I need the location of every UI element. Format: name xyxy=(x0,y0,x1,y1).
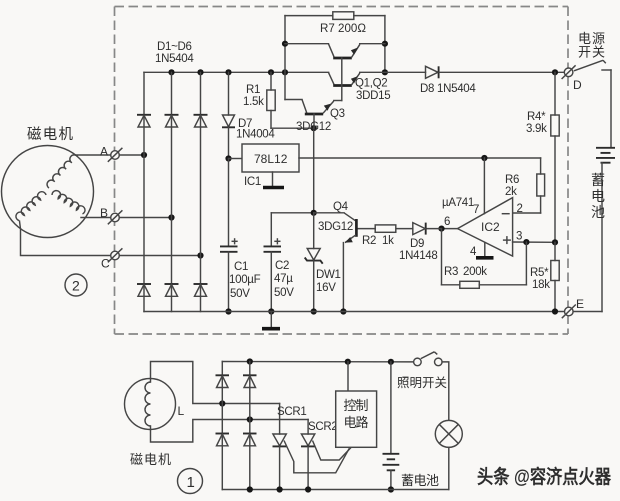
resistor R2 1k xyxy=(357,225,396,232)
junction phase A xyxy=(141,152,147,158)
thyristor SCR1 xyxy=(273,404,350,490)
resistor R1 1.5k xyxy=(267,72,314,128)
junction Q4 collector node xyxy=(311,210,317,216)
svg-text:R7 200Ω: R7 200Ω xyxy=(320,21,366,35)
svg-text:1: 1 xyxy=(187,474,195,491)
junction C1 to ground rail xyxy=(225,308,231,314)
svg-text:电: 电 xyxy=(591,188,605,204)
lamp xyxy=(435,420,462,447)
svg-text:6: 6 xyxy=(444,216,450,228)
label DW1 16V xyxy=(316,269,341,294)
svg-text:R3: R3 xyxy=(444,266,458,278)
label 磁电机 (bottom motor) xyxy=(130,452,171,467)
label 电源开关 power switch xyxy=(578,31,605,60)
svg-text:3.9k: 3.9k xyxy=(526,123,547,135)
label Q1,Q2 3DD15 xyxy=(355,78,390,103)
diode bridge bottom-left xyxy=(216,434,230,446)
rectifier column 3 wire xyxy=(200,72,202,311)
magneto generator M2 body xyxy=(2,146,94,238)
node E connector xyxy=(562,305,576,319)
rectifier column 2 wire xyxy=(171,72,173,311)
pin 3 wire and label xyxy=(513,231,555,243)
svg-text:1k: 1k xyxy=(382,235,394,247)
diode D1 xyxy=(137,115,151,127)
transistor Q2 xyxy=(328,72,385,85)
svg-text:电路: 电路 xyxy=(344,415,369,430)
ground symbol on bottom rail xyxy=(262,312,280,329)
svg-text:3: 3 xyxy=(516,231,522,243)
diode bridge top-left xyxy=(216,375,230,387)
label R6 2k xyxy=(505,174,519,198)
svg-text:50V: 50V xyxy=(230,288,250,300)
transistor Q3 xyxy=(285,86,342,129)
12V supply line from IC1 xyxy=(299,158,541,174)
label Q3 3DG12 xyxy=(296,108,345,133)
diode D2 xyxy=(165,115,179,127)
svg-text:开关: 开关 xyxy=(578,45,605,60)
label SCR1 xyxy=(277,406,306,418)
wire Q3 base node down to Q4 node xyxy=(313,128,315,213)
svg-text:控制: 控制 xyxy=(344,398,369,413)
wire rail to D7 xyxy=(228,72,230,115)
bridge column 2 wire xyxy=(249,362,251,490)
label Q4 3DG12 xyxy=(318,201,353,233)
resistor R3 200k network xyxy=(442,229,527,289)
junction pin 6 node xyxy=(438,226,444,232)
wire M1 lead 1 xyxy=(151,362,223,404)
circled label 1 xyxy=(178,469,203,494)
node B connector xyxy=(108,210,123,224)
svg-text:B: B xyxy=(100,206,108,220)
svg-text:照明开关: 照明开关 xyxy=(397,376,447,390)
wire C2 top to Q4 node xyxy=(271,212,313,214)
node D connector xyxy=(562,65,576,79)
rail junction dots xyxy=(168,69,288,75)
wire phase C from motor xyxy=(20,221,111,256)
pin 2 label xyxy=(517,203,523,215)
svg-text:蓄: 蓄 xyxy=(591,172,605,188)
svg-text:18k: 18k xyxy=(532,279,550,291)
svg-text:DW1: DW1 xyxy=(316,269,341,281)
watermark 头条 @容济点火器 xyxy=(477,465,612,488)
resistor R5* 18k xyxy=(551,242,559,311)
wire D7 to regulator node xyxy=(228,128,230,159)
wire phase A from motor xyxy=(76,154,111,156)
junction pin3 / R3 xyxy=(523,239,529,245)
svg-text:R4*: R4* xyxy=(527,111,546,123)
svg-text:50V: 50V xyxy=(274,287,294,299)
svg-text:L: L xyxy=(178,404,185,418)
node A connector xyxy=(108,148,123,162)
svg-text:1N5404: 1N5404 xyxy=(155,53,194,65)
wire switch to lamp xyxy=(442,362,449,421)
bridge column 1 wire xyxy=(221,362,223,490)
svg-text:R5*: R5* xyxy=(530,267,549,279)
svg-text:D9: D9 xyxy=(410,238,424,250)
svg-text:R6: R6 xyxy=(505,174,519,186)
label D7 1N4004 xyxy=(236,118,275,141)
section 2 boundary dashed box xyxy=(115,7,569,335)
node C connector xyxy=(108,248,123,262)
power switch blade xyxy=(574,60,611,147)
svg-text:100µF: 100µF xyxy=(229,274,261,286)
diode D4 xyxy=(137,284,151,296)
svg-text:2: 2 xyxy=(72,278,80,294)
resistor R4* 3.9k xyxy=(551,72,559,242)
node B label xyxy=(100,206,108,220)
svg-text:Q3: Q3 xyxy=(330,108,345,120)
label uA741 xyxy=(442,197,474,209)
C1 polarity plus xyxy=(232,238,238,244)
junction phase B xyxy=(168,214,174,220)
rectifier column 1 wire xyxy=(143,72,145,311)
C2 polarity plus xyxy=(274,238,280,244)
label R2 1k xyxy=(362,235,394,247)
node C label xyxy=(101,257,110,271)
wire Q1 base to Q2 base xyxy=(341,58,343,86)
svg-text:C: C xyxy=(101,257,110,271)
wire mid line to SCR2 xyxy=(250,419,308,421)
circled label 2 xyxy=(65,274,87,296)
regulator IC1 78L12 xyxy=(229,144,300,172)
DC positive rail (top) xyxy=(144,71,329,73)
svg-text:16V: 16V xyxy=(316,282,336,294)
svg-text:78L12: 78L12 xyxy=(254,152,288,166)
control circuit box 控制电路 xyxy=(336,362,377,448)
svg-text:7: 7 xyxy=(473,204,479,216)
junction lead2 / column 2 xyxy=(247,416,253,422)
label R4* 3.9k xyxy=(526,111,547,135)
svg-text:3DG12: 3DG12 xyxy=(318,221,353,233)
label L xyxy=(178,404,185,418)
ground of IC1 xyxy=(263,172,284,188)
label 蓄电池 (vertical, right) xyxy=(591,172,605,220)
svg-text:R1: R1 xyxy=(246,84,260,96)
thyristor SCR2 xyxy=(301,420,351,490)
bottom rail (section 1) xyxy=(222,489,448,491)
svg-text:1.5k: 1.5k xyxy=(243,96,264,108)
node A label xyxy=(100,145,108,159)
label 照明开关 xyxy=(397,376,447,390)
svg-text:µA741: µA741 xyxy=(442,197,474,209)
pin 7 wire and label xyxy=(473,158,484,216)
diode D6 xyxy=(194,284,208,296)
top rail (section 1) xyxy=(222,361,413,363)
node D label xyxy=(573,78,582,92)
svg-text:3DG12: 3DG12 xyxy=(296,121,331,133)
wire node B to rectifier column xyxy=(119,217,171,219)
lighting switch 照明开关 xyxy=(414,352,443,366)
svg-text:1N4148: 1N4148 xyxy=(399,250,437,262)
junction R4 top xyxy=(552,69,558,75)
pin 4 ground xyxy=(470,243,494,258)
diode D9 1N4148 xyxy=(396,223,441,235)
wire M1 lead 2 xyxy=(151,420,250,443)
diode D8 1N5404 xyxy=(426,66,565,78)
label IC1 xyxy=(244,176,261,188)
resistor R6 2k xyxy=(513,174,545,213)
svg-text:头条 @容济点火器: 头条 @容济点火器 xyxy=(477,465,612,488)
svg-text:C2: C2 xyxy=(275,260,289,272)
label R7 200ohm xyxy=(320,21,366,35)
wire node C to rectifier column xyxy=(119,255,200,257)
svg-text:IC2: IC2 xyxy=(481,220,500,234)
wire node A to rectifier column xyxy=(119,154,144,156)
svg-text:A: A xyxy=(100,145,108,159)
diode bridge bottom-right xyxy=(243,434,257,446)
wire phase B from motor xyxy=(81,217,111,219)
diode D5 xyxy=(165,284,179,296)
svg-text:SCR2: SCR2 xyxy=(308,421,337,433)
junction C2 to ground rail xyxy=(268,308,274,314)
junction lead1 / column 1 xyxy=(219,400,225,406)
svg-text:E: E xyxy=(576,297,584,311)
diode bridge top-right xyxy=(243,375,257,387)
svg-text:D1~D6: D1~D6 xyxy=(157,41,192,53)
wire node to zener xyxy=(313,213,315,249)
junction R5 bottom xyxy=(552,308,558,314)
zener diode DW1 16V xyxy=(305,249,323,312)
rail junction dots (section 1) xyxy=(247,358,394,365)
svg-text:3DD15: 3DD15 xyxy=(356,90,390,102)
label SCR2 xyxy=(308,421,337,433)
wire rail to D8 xyxy=(385,71,426,73)
diode D3 xyxy=(194,115,208,127)
junction DW1 to ground rail xyxy=(311,308,317,314)
label R5* 18k xyxy=(530,267,550,291)
junction phase C xyxy=(197,252,203,258)
junction dots R7 branch xyxy=(282,41,388,76)
svg-text:D8 1N5404: D8 1N5404 xyxy=(420,83,476,95)
junction op-amp supply xyxy=(481,155,487,161)
svg-text:磁电机: 磁电机 xyxy=(130,452,171,467)
storage battery (section 1) xyxy=(383,362,400,490)
svg-text:4: 4 xyxy=(470,246,477,258)
svg-text:Q1,Q2: Q1,Q2 xyxy=(355,78,387,90)
wire E to battery negative xyxy=(573,311,602,313)
wire mid line to SCR1 xyxy=(222,403,279,405)
svg-text:IC1: IC1 xyxy=(244,176,261,188)
svg-text:2k: 2k xyxy=(505,186,517,198)
label 蓄电池 (bottom) xyxy=(401,473,439,488)
label C2 47u 50V xyxy=(274,260,294,299)
svg-text:池: 池 xyxy=(591,204,605,220)
magneto generator M1 body xyxy=(125,379,176,430)
rail junction dots bottom xyxy=(247,486,312,492)
svg-text:蓄电池: 蓄电池 xyxy=(401,473,439,488)
node E label xyxy=(576,297,584,311)
ground rail (bottom of section 2) xyxy=(144,311,564,313)
label R1 1.5k xyxy=(243,84,264,108)
storage battery (section 2) xyxy=(596,148,615,312)
svg-text:C1: C1 xyxy=(234,261,248,273)
capacitor C1 100uF xyxy=(220,159,238,312)
capacitor C2 47uF xyxy=(264,213,282,312)
label C1 100uF 50V xyxy=(229,261,261,300)
svg-text:1N4004: 1N4004 xyxy=(236,129,275,141)
wire lamp to bottom rail xyxy=(448,447,450,489)
svg-text:47µ: 47µ xyxy=(274,273,293,285)
pin 6 wire and label xyxy=(442,216,458,229)
label 磁电机 (top motor) xyxy=(27,126,74,143)
svg-text:D: D xyxy=(573,78,582,92)
op-amp IC2 uA741 xyxy=(458,198,513,257)
label D9 1N4148 xyxy=(399,238,437,262)
winding L of M1 xyxy=(145,382,151,426)
junction Q4 emitter to ground rail xyxy=(340,308,346,314)
svg-text:磁电机: 磁电机 xyxy=(27,126,74,143)
resistor R7 200ohm branch xyxy=(285,12,385,100)
diode D7 xyxy=(222,115,235,127)
junction regulator input xyxy=(225,155,231,161)
svg-text:2: 2 xyxy=(517,203,523,215)
transistor Q4 xyxy=(314,213,357,312)
svg-text:SCR1: SCR1 xyxy=(277,406,306,418)
magneto M2 stator windings (Y) xyxy=(16,155,85,221)
svg-text:Q4: Q4 xyxy=(333,201,349,213)
junction pin3 / R4 R5 xyxy=(552,239,558,245)
label R3 200k xyxy=(444,266,487,278)
transistor Q1 xyxy=(285,44,385,58)
label D8 1N5404 xyxy=(420,83,476,95)
junction battery top / bottom xyxy=(388,486,394,492)
junction Q3 base node xyxy=(311,125,317,131)
svg-text:R2: R2 xyxy=(362,235,376,247)
svg-text:200k: 200k xyxy=(463,266,487,278)
label D1~D6 1N5404 xyxy=(155,41,194,65)
